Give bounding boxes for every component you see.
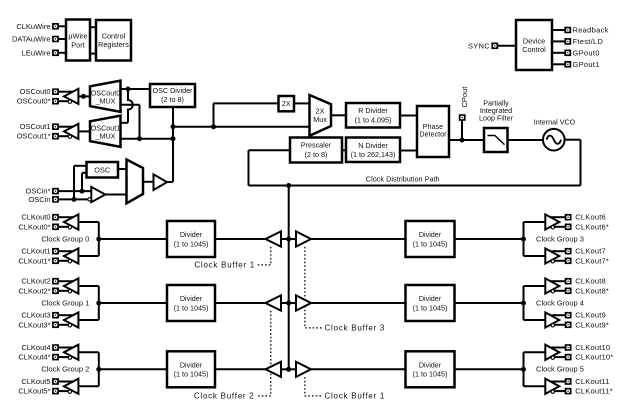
block OSC Divider [150,84,195,107]
svg-text:OSC Divider: OSC Divider [153,86,194,95]
wire OSCout1_MUX input 1 with hop [128,89,133,123]
wire CLKout3 pin to buffer [59,314,74,316]
wire clock buffer to divider 5 [311,368,406,370]
svg-text:(2 to 8): (2 to 8) [161,95,184,104]
pin CLKout10* [565,354,572,361]
pin OSCin [52,196,59,203]
wire CLKout0 pin to buffer [59,216,74,218]
svg-text:Clock Group 4: Clock Group 4 [536,298,584,307]
junction central riser row 0 [286,237,291,242]
wire prescaler feed riser [248,150,250,185]
wire OSC input2 riser [81,173,83,191]
svg-text:CLKout9*: CLKout9* [575,320,609,329]
pin CLKout0* [52,224,59,231]
divider clock group 4 [406,285,455,321]
buffer clock buffer left row 0 [266,231,282,246]
wire clock group 0 to divider [99,238,167,240]
block R Divider [346,103,400,128]
svg-text:OSCout0*: OSCout0* [17,97,51,106]
svg-text:CLKout9: CLKout9 [575,311,606,320]
svg-text:Device: Device [523,36,545,45]
svg-text:(1 to 262,143): (1 to 262,143) [351,150,396,159]
svg-text:CLKout4: CLKout4 [21,343,50,352]
svg-text:OSCout0: OSCout0 [20,87,51,96]
block N Divider [346,138,400,163]
wire buffer CLKout6 input [524,221,546,223]
pin CPout [459,114,466,121]
wire divider 4 output [455,302,524,304]
divider clock group 3 [406,221,455,257]
junction clock group 4 [521,301,526,306]
wire CLKout0* pin to buffer [59,226,69,228]
svg-text:CLKout0: CLKout0 [21,213,50,222]
wire CLKout4* pin to buffer [59,356,69,358]
wire buffer CLKout8 input [524,285,546,287]
pin DATAuWire [52,36,59,43]
wire 2X Mux to R Divider [331,114,346,116]
divider clock group 0 [167,221,215,257]
svg-text:CLKout10*: CLKout10* [575,353,613,362]
svg-text:Divider: Divider [419,230,442,239]
svg-text:(1 to 1045): (1 to 1045) [413,303,448,312]
svg-text:R Divider: R Divider [358,106,388,115]
wire osc buffer to main node [166,181,173,183]
svg-text:Prescaler: Prescaler [301,141,332,150]
svg-text:N Divider: N Divider [358,141,388,150]
pin CLKout8* [565,288,572,295]
wire Device Control to Ftest/LD [552,40,565,42]
wire CLKout1 pin to buffer [59,250,74,252]
pin CLKout4 [52,344,59,351]
svg-text:Control: Control [522,45,546,54]
buffer clock buffer right row 2 [296,362,311,377]
svg-text:Clock Group 2: Clock Group 2 [41,365,89,374]
wire Prescaler to N Divider [342,149,346,151]
mux OSCout1_MUX [90,116,121,147]
wire Loop Filter to VCO [508,139,544,141]
pin CLKuWire [52,23,59,30]
svg-text:(1 to 1045): (1 to 1045) [413,239,448,248]
wire divider 2 to clock buffer [215,368,266,370]
wire DATAuWire to uWire Port [59,38,66,40]
svg-text:CLKout4*: CLKout4* [18,353,50,362]
svg-text:CLKout5: CLKout5 [21,377,50,386]
pin SYNC [491,43,498,50]
mux OSC input mux [127,160,144,204]
wire clock group 2 to divider [99,368,167,370]
pin CLKout5* [52,388,59,395]
wire clock buffer to divider 4 [311,302,406,304]
wire central distribution riser [288,186,290,370]
wire 2X to 2X Mux [294,102,310,104]
wire mux input2 riser [139,105,141,139]
junction clock group 1 [96,301,101,306]
wire input mux to osc buffer [143,181,154,183]
pin CLKout9 [565,312,572,319]
wire distribution to Prescaler [249,149,291,151]
wire CLKout3* pin to buffer [59,324,69,326]
wire CLKout9 buffer to pin [550,314,565,316]
wire CLKout2 pin to buffer [59,280,74,282]
label Partially Integrated Loop Filter [479,99,514,123]
wire CLKout4 pin to buffer [59,347,74,349]
junction central riser row 1 [286,301,291,306]
wire Device Control to Readback [552,29,565,31]
junction distribution to clock tree [286,183,291,188]
junction clock group 5 [521,367,526,372]
wire LEuWire to uWire Port [59,52,66,54]
block Prescaler [290,138,342,163]
pin LEuWire [52,50,59,57]
wire clock group 0 riser [98,222,100,256]
wire buffer CLKout9 input [524,319,546,321]
pin CLKout0 [52,214,59,221]
buffer OSCin input buffer [88,187,106,202]
svg-text:CLKout5*: CLKout5* [18,387,50,396]
pin CLKout5 [52,378,59,385]
wire clock group 5 riser [523,352,525,386]
oscillator Internal VCO [543,129,565,151]
wire input buffer to input mux [105,194,126,196]
svg-text:Divider: Divider [419,360,442,369]
svg-text:Registers: Registers [98,40,129,49]
wire CPout riser [461,121,463,140]
pin CLKout11 [565,378,572,385]
block Control Registers [96,20,131,61]
wire OSCout0 pin to buffer [59,91,74,93]
wire CLKout7 buffer to pin [550,250,565,252]
wire clock group 3 riser [523,222,525,256]
junction clock group 0 [96,237,101,242]
junction clock group 2 [96,367,101,372]
junction central riser row 2 [286,367,291,372]
wire buffer CLKout5 input [78,385,99,387]
buffer CLKout7/CLKout7* output buffer [545,248,559,263]
block 2X doubler [279,96,295,111]
pin OSCout0* [52,98,59,105]
svg-text:GPout0: GPout0 [573,48,600,57]
svg-text:DATAuWire: DATAuWire [12,35,50,44]
wire clock buffer to divider 3 [311,238,406,240]
buffer OSCout0 output buffer [64,89,78,104]
buffer clock buffer left row 1 [266,295,282,310]
svg-text:Divider: Divider [180,294,203,303]
svg-text:Clock Group 0: Clock Group 0 [41,234,89,243]
wire divider 5 output [455,368,524,370]
buffer CLKout5/CLKout5* output buffer [64,379,78,394]
divider clock group 1 [167,285,215,321]
pin CLKout3 [52,312,59,319]
wire clock group 1 to divider [99,302,167,304]
pin CLKout3* [52,322,59,329]
svg-text:CLKout2: CLKout2 [21,277,50,286]
dashed callout Clock Buffer 1 (top left) [257,247,271,265]
wire OSC input 2 [82,172,87,174]
svg-text:CLKuWire: CLKuWire [16,22,50,31]
wire OSCout1* pin to buffer [59,135,69,137]
svg-text:2X: 2X [282,99,291,108]
wire OSCout0_MUX input 2 [121,104,140,106]
wire OSCout1 pin to buffer [59,126,74,128]
buffer CLKout1/CLKout1* output buffer [64,248,78,263]
wire Device Control to GPout1 [552,63,565,65]
svg-text:CPout: CPout [460,86,469,108]
svg-text:CLKout6: CLKout6 [575,213,606,222]
wire CLKout11 buffer to pin [550,381,565,383]
wire SYNC to Device Control [498,45,516,47]
pin Ftest/LD [564,38,571,45]
wire OSC divider output riser [172,107,174,182]
junction 2X branch [211,124,216,129]
buffer CLKout11/CLKout11* output buffer [545,379,559,394]
dashed callout Clock Buffer 2 [256,311,271,396]
block Device Control [516,20,552,70]
wire uWire Port to Control Registers upper [90,26,96,28]
svg-text:Detector: Detector [419,130,447,139]
junction OSCout0_MUX input 1 [126,87,131,92]
pin CLKout8 [565,278,572,285]
pin CLKout10 [565,344,572,351]
mux 2X Mux [310,95,332,136]
svg-text:Clock Group 3: Clock Group 3 [536,234,584,243]
svg-text:Loop Filter: Loop Filter [479,114,514,123]
wire uWire Port to Control Registers lower [90,53,96,55]
svg-text:Internal VCO: Internal VCO [534,118,576,127]
svg-text:Divider: Divider [419,294,442,303]
svg-text:OSCout1: OSCout1 [20,122,51,131]
pin GPout0 [564,50,571,57]
svg-text:Divider: Divider [180,360,203,369]
buffer clock buffer right row 1 [296,295,311,310]
pin CLKout1 [52,248,59,255]
buffer CLKout9/CLKout9* output buffer [545,312,559,327]
block uWire Port [66,20,90,61]
wire clock buffer row 2 cross [281,368,296,370]
pin OSCout0 [52,88,59,95]
svg-text:OSC: OSC [94,166,110,175]
wire CLKout8* buffer to pin [554,290,565,292]
svg-text:CLKout1*: CLKout1* [18,256,50,265]
wire CLKuWire to uWire Port [59,25,66,27]
buffer clock buffer left row 2 [266,362,282,377]
svg-text:(1 to 1045): (1 to 1045) [413,370,448,379]
svg-text:SYNC: SYNC [468,41,490,50]
wire buffer CLKout4 input [78,351,99,353]
buffer CLKout6/CLKout6* output buffer [545,214,559,229]
wire CLKout9* buffer to pin [554,324,565,326]
svg-text:Readback: Readback [573,26,609,35]
wire CLKout2* pin to buffer [59,290,69,292]
svg-text:Clock Group 1: Clock Group 1 [41,298,89,307]
wire clock group 2 riser [98,352,100,386]
wire OSCin* to input buffer [59,190,92,192]
wire OSCout0* pin to buffer [59,100,69,102]
svg-text:OSCout1*: OSCout1* [17,132,51,141]
pin CLKout2* [52,288,59,295]
wire buffer CLKout0 input [78,221,99,223]
junction CPout tap [460,138,465,143]
svg-text:CLKout0*: CLKout0* [18,222,50,231]
divider clock group 5 [406,351,455,387]
svg-text:Mux: Mux [313,115,327,124]
junction OSCout0 buffer wire [81,94,86,99]
wire OSCout0 buffer input [78,95,90,97]
pin CLKout7 [565,248,572,255]
svg-text:(1 to 1045): (1 to 1045) [174,370,209,379]
buffer CLKout0/CLKout0* output buffer [64,214,78,229]
wire clock group 1 riser [98,286,100,320]
svg-text:_MUX: _MUX [95,96,116,105]
wire VCO output [565,139,581,141]
wire buffer CLKout1 input [78,255,99,257]
junction clock group 3 [521,237,526,242]
svg-text:CLKout1: CLKout1 [21,247,50,256]
buffer CLKout3/CLKout3* output buffer [64,312,78,327]
wire buffer CLKout7 input [524,255,546,257]
wire clock distribution path [249,185,581,187]
wire CLKout5 pin to buffer [59,381,74,383]
buffer OSCout1 output buffer [64,124,78,139]
buffer clock buffer right row 0 [296,231,311,246]
buffer CLKout10/CLKout10* output buffer [545,345,559,360]
wire CLKout6* buffer to pin [554,226,565,228]
svg-text:Clock Buffer 3: Clock Buffer 3 [325,324,386,333]
wire R Divider to Phase Detector [400,115,417,117]
divider clock group 2 [167,351,215,387]
pin CLKout11* [565,388,572,395]
pin CLKout4* [52,354,59,361]
svg-text:CLKout7*: CLKout7* [575,256,609,265]
block Phase Detector [417,106,449,157]
pin Readback [564,27,571,34]
junction OSCout1_MUX input 2 branch [137,136,142,141]
pin GPout1 [564,61,571,68]
wire Device Control to GPout0 [552,52,565,54]
wire VCO feedback riser [580,140,582,186]
svg-text:CLKout2*: CLKout2* [18,286,50,295]
buffer CLKout2/CLKout2* output buffer [64,278,78,293]
wire buffer CLKout10 input [524,351,546,353]
wire clock buffer row 0 cross [281,238,296,240]
wire buffer CLKout2 input [78,285,99,287]
svg-text:Clock Group 5: Clock Group 5 [536,365,584,374]
svg-text:Clock Buffer 1: Clock Buffer 1 [194,261,255,270]
svg-text:Clock Distribution Path: Clock Distribution Path [366,175,440,184]
svg-text:CLKout10: CLKout10 [575,343,610,352]
wire OSCin to input buffer [59,198,88,200]
svg-text:CLKout6*: CLKout6* [575,222,609,231]
wire main clock line [173,126,310,128]
svg-text:CLKout11*: CLKout11* [575,387,613,396]
wire CLKout5* pin to buffer [59,390,69,392]
svg-text:Divider: Divider [180,230,203,239]
wire OSCout1 buffer input [78,130,90,132]
wire clock group 4 riser [523,286,525,320]
svg-text:LEuWire: LEuWire [22,48,51,57]
dashed callout Clock Buffer 1 (bottom right) [305,377,323,396]
pin CLKout1* [52,258,59,265]
wire clock buffer row 1 cross [281,302,296,304]
pin OSCout1 [52,123,59,130]
svg-text:Port: Port [71,40,84,49]
mux OSCout0_MUX [90,81,121,112]
wire buffer CLKout3 input [78,319,99,321]
wire CLKout8 buffer to pin [550,280,565,282]
buffer CLKout8/CLKout8* output buffer [545,278,559,293]
wire OSC to input mux [118,168,127,170]
wire 2X branch riser [213,103,215,126]
svg-text:Clock Buffer 1: Clock Buffer 1 [325,392,386,401]
wire buffer CLKout11 input [524,385,546,387]
pin OSCout1* [52,133,59,140]
block OSC [87,162,119,178]
wire OSC input 1 [74,165,87,167]
svg-text:CLKout3*: CLKout3* [18,320,50,329]
wire divider 3 output [455,238,524,240]
svg-text:CLKout11: CLKout11 [575,377,609,386]
pin CLKout2 [52,278,59,285]
dashed callout Clock Buffer 3 [305,247,323,328]
svg-text:GPout1: GPout1 [573,60,600,69]
pin OSCin* [52,188,59,195]
wire OSCout1_MUX input 2 [121,138,174,140]
wire divider 1 to clock buffer [215,302,266,304]
svg-text:(1 to 4,095): (1 to 4,095) [355,115,392,124]
wire CLKout1* pin to buffer [59,260,69,262]
svg-text:CLKout3: CLKout3 [21,311,50,320]
svg-text:(2 to 8): (2 to 8) [305,150,328,159]
junction main node lower [171,136,176,141]
svg-text:CLKout8: CLKout8 [575,277,606,286]
wire divider 0 to clock buffer [215,238,266,240]
junction main node [171,124,176,129]
wire OSC input1 riser [73,166,75,200]
buffer CLKout4/CLKout4* output buffer [64,345,78,360]
svg-text:_MUX: _MUX [95,131,116,140]
wire CLKout10 buffer to pin [550,347,565,349]
junction OSCin* line [80,189,85,194]
wire CLKout6 buffer to pin [550,216,565,218]
junction OSCin line [72,197,77,202]
svg-text:Control: Control [102,31,126,40]
wire CLKout11* buffer to pin [554,390,565,392]
svg-text:(1 to 1045): (1 to 1045) [174,239,209,248]
buffer osc path buffer [154,174,168,190]
wire 2X branch top [214,102,279,104]
block Partially Integrated Loop Filter [484,128,508,152]
svg-text:CLKout7: CLKout7 [575,247,606,256]
wire OSCout0_MUX input 1 [121,88,151,90]
pin CLKout7* [565,258,572,265]
wire N Divider to Phase Detector [400,150,417,152]
svg-text:Clock Buffer 2: Clock Buffer 2 [194,392,255,401]
svg-text:µWire: µWire [68,32,87,41]
wire CLKout10* buffer to pin [554,356,565,358]
svg-text:(1 to 1045): (1 to 1045) [174,303,209,312]
wire Phase Detector to Loop Filter [449,139,484,141]
svg-text:Ftest/LD: Ftest/LD [573,37,604,46]
wire CLKout7* buffer to pin [554,260,565,262]
svg-text:OSCin: OSCin [28,195,50,204]
pin CLKout6 [565,214,572,221]
pin CLKout9* [565,322,572,329]
pin CLKout6* [565,224,572,231]
svg-text:CLKout8*: CLKout8* [575,286,609,295]
